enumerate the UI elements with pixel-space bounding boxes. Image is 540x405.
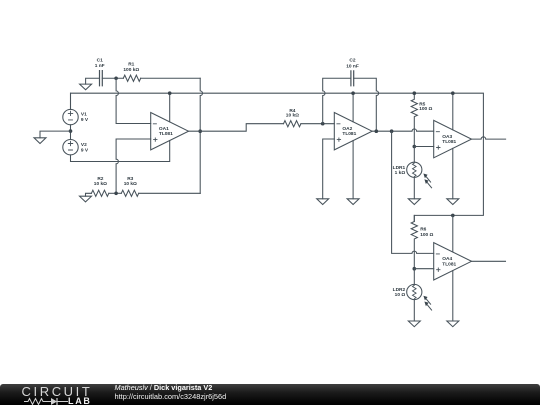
node R5 LDR1 OA3 junction <box>413 145 417 149</box>
svg-text:1 nF: 1 nF <box>95 63 105 69</box>
LDR1 light arrows <box>426 176 432 188</box>
svg-text:9 V: 9 V <box>81 117 89 123</box>
voltage source V2 <box>63 140 78 155</box>
wire LDR1 top lead <box>413 147 415 163</box>
svg-text:OA4: OA4 <box>442 256 452 262</box>
wire V1 to V2 <box>70 125 72 140</box>
svg-text:R1: R1 <box>128 62 134 68</box>
svg-text:OA1: OA1 <box>159 126 169 132</box>
wire OA4 output <box>472 260 506 262</box>
svg-text:100 kΩ: 100 kΩ <box>123 67 139 73</box>
svg-text:100 Ω: 100 Ω <box>420 232 433 238</box>
wire R4 to OA2 inverting input <box>301 123 334 125</box>
ground <box>317 199 329 205</box>
resistor R6 <box>411 215 417 268</box>
url text <box>115 392 227 401</box>
wire feedback vertical with hop <box>200 78 202 193</box>
node R4 C2 junction <box>321 122 325 126</box>
svg-text:OA2: OA2 <box>342 126 352 132</box>
node OA1 V+ on rail <box>168 91 172 95</box>
wire LDR1 bottom lead <box>413 177 415 198</box>
wire branch down to OA4 inverting with hop <box>392 131 434 253</box>
wire V1 top lead <box>70 93 72 109</box>
ground <box>80 196 92 202</box>
wire OA3 V- to ground <box>452 148 454 198</box>
wire R2 to R3 <box>109 192 122 194</box>
wire C1 to R1 <box>102 77 123 79</box>
ground <box>447 321 459 327</box>
node C1-R1 junction <box>114 76 118 80</box>
resistor R5 <box>411 93 417 146</box>
wire midpoint to ground <box>40 131 71 138</box>
wire C1 ground lead <box>86 78 100 84</box>
capacitor C2 <box>351 71 354 86</box>
svg-text:V1: V1 <box>81 112 87 118</box>
wire OA1 V- to negative rail <box>71 141 170 162</box>
svg-text:TL081: TL081 <box>342 131 356 137</box>
resistor R2 <box>91 190 108 196</box>
wire OA2 output with hop over R5 lead <box>372 129 434 131</box>
svg-text:10 kΩ: 10 kΩ <box>286 113 299 119</box>
resistor R1 <box>123 75 140 81</box>
wire OA2 V+ stub <box>352 93 354 122</box>
ground <box>347 199 359 205</box>
svg-text:10 kΩ: 10 kΩ <box>94 181 107 187</box>
node OA2 V+ on rail <box>351 91 355 95</box>
footer bar <box>0 384 540 405</box>
ground <box>408 199 420 205</box>
op-amp OA3 <box>434 120 472 157</box>
wire OA2 V- to ground <box>352 141 354 199</box>
title text <box>115 383 213 392</box>
logo wire doodle <box>24 397 74 405</box>
svg-text:10 nF: 10 nF <box>346 63 359 69</box>
svg-text:TL081: TL081 <box>159 131 173 137</box>
LDR2 light arrows <box>426 298 432 310</box>
voltage source V1 <box>63 109 78 124</box>
svg-text:V2: V2 <box>81 142 87 148</box>
op-amp OA2 <box>334 113 372 150</box>
svg-text:100 Ω: 100 Ω <box>419 106 432 112</box>
wire OA4 V+ stub <box>452 215 454 252</box>
svg-text:C1: C1 <box>97 57 103 63</box>
svg-text:10 Ω: 10 Ω <box>395 292 406 298</box>
CircuitLab logo <box>22 386 93 398</box>
photoresistor LDR2 <box>407 284 422 299</box>
wire OA3 V+ stub <box>452 93 454 130</box>
node branch to OA4 <box>390 129 394 133</box>
wire OA3 noninverting input <box>414 146 433 148</box>
ground <box>408 321 420 327</box>
resistor R3 <box>121 190 138 196</box>
wire R2 ground lead <box>86 193 92 196</box>
capacitor C1 <box>100 71 103 86</box>
svg-text:9 V: 9 V <box>81 148 89 154</box>
wire OA1 V+ stub <box>169 93 171 122</box>
wire C2 left branch with hop <box>323 78 351 123</box>
resistor R4 <box>284 121 301 127</box>
wire C2 right branch with hop <box>354 78 379 131</box>
svg-text:1 kΩ: 1 kΩ <box>395 170 406 176</box>
wire positive rail <box>71 93 484 221</box>
node V1 V2 midpoint <box>69 129 73 133</box>
wire OA4 noninverting input <box>414 268 433 270</box>
wire OA4 V- to ground <box>452 271 454 321</box>
ground <box>34 138 46 144</box>
node R2-R3 junction <box>114 192 118 196</box>
wire noninverting input branch with hop <box>116 139 151 193</box>
wire R1 to feedback corner <box>141 77 201 79</box>
node R6 LDR2 OA4 junction <box>413 267 417 271</box>
op-amp OA1 <box>151 113 189 150</box>
wire OA2 noninverting to ground <box>323 139 335 199</box>
ground <box>80 84 92 90</box>
op-amp OA4 <box>434 243 472 280</box>
node OA1 output <box>198 129 202 133</box>
wire LDR2 top lead <box>413 269 415 285</box>
node OA4 V+ tap <box>451 214 455 218</box>
svg-text:TL081: TL081 <box>442 261 456 267</box>
svg-text:10 kΩ: 10 kΩ <box>124 181 137 187</box>
wire R3 to feedback vertical <box>139 192 201 194</box>
node OA2 output C2 <box>375 129 379 133</box>
svg-text:C2: C2 <box>349 58 355 64</box>
ground <box>447 199 459 205</box>
node R5 on rail <box>413 91 417 95</box>
node OA3 V+ on rail <box>451 91 455 95</box>
wire LDR2 bottom lead <box>413 300 415 321</box>
wire inverting input branch with hop <box>116 78 151 123</box>
svg-text:OA3: OA3 <box>442 134 452 140</box>
svg-text:TL081: TL081 <box>442 139 456 145</box>
photoresistor LDR1 <box>407 162 422 177</box>
wire OA1 output to R4 <box>189 124 284 132</box>
svg-text:R6: R6 <box>420 226 426 232</box>
wire OA3 output with hop <box>472 137 506 139</box>
